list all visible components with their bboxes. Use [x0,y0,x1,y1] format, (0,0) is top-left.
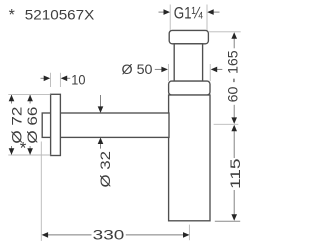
dimension G1 1/4 left arrow [159,11,165,13]
dimension diameter 72 line with arrows [11,95,13,104]
wire: pipe axis extension [214,123,239,125]
dimension 60-165 line [233,38,235,48]
tube (vertical adjustment tube) [174,44,202,81]
svg-text:Ø 50: Ø 50 [122,61,153,77]
wire: flange top extension [8,94,50,96]
svg-text:*: * [9,7,15,24]
svg-text:Ø 66: Ø 66 [24,106,40,143]
wire: 330 right extension [188,225,190,241]
wire: 330 left extension [40,142,42,241]
wire: flange bottom extension [8,154,50,156]
dimension diameter 50 right arrow [217,68,222,70]
body (trap cup) [169,95,210,221]
wire: 60-165 top extension [208,31,240,33]
svg-text:10: 10 [71,72,85,88]
wire: G1 1/4 extension line left [169,5,171,31]
dimension diameter 66 line with arrows [29,95,31,104]
pipe (horizontal waste pipe) [42,113,169,137]
dimension diameter 32 bottom arrow [100,144,102,149]
dimension 10 right arrow [67,77,70,79]
dimension diameter 50 extension left [167,64,169,81]
svg-text:5210567X: 5210567X [25,7,95,23]
slip nut [169,81,210,95]
flange (wall escutcheon) [51,94,61,155]
dimension 115 line [233,131,235,159]
wire: G1 1/4 extension line right [206,5,208,31]
dimension 330 line [48,234,92,236]
dimension diameter 32 top arrow [100,95,102,107]
dimension 10 left arrow [41,77,45,79]
collar (top nut) [169,30,208,43]
dimension 10 extension lines [50,73,52,87]
svg-text:330: 330 [93,226,125,242]
svg-text:60 - 165: 60 - 165 [225,50,241,102]
dimension G1 1/4 right arrow [214,11,220,13]
dimension diameter 50 extension right [209,64,211,81]
svg-text:115: 115 [227,158,243,189]
svg-text:Ø 32: Ø 32 [97,151,113,188]
svg-text:G1¼: G1¼ [174,5,203,23]
dimension diameter 50 left arrow [155,68,162,70]
wire: ground line under 115 [215,220,240,222]
